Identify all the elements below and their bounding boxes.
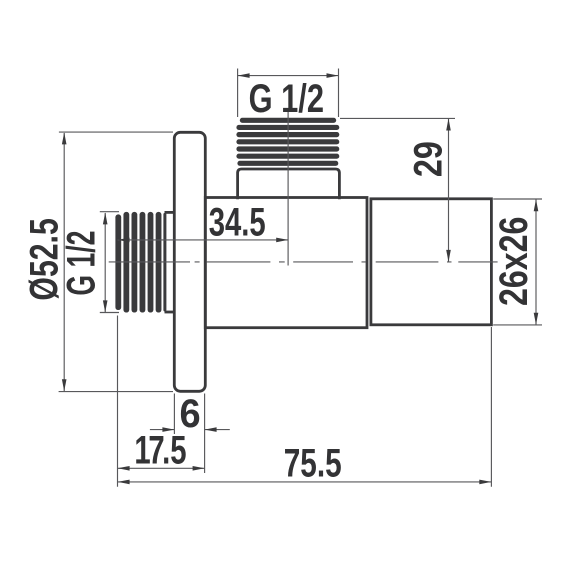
svg-text:29: 29 <box>405 141 450 177</box>
svg-text:17.5: 17.5 <box>134 428 186 473</box>
svg-text:34.5: 34.5 <box>209 200 266 245</box>
svg-text:G 1/2: G 1/2 <box>59 231 104 296</box>
svg-text:26x26: 26x26 <box>491 217 536 306</box>
svg-text:75.5: 75.5 <box>284 441 342 485</box>
svg-text:G 1/2: G 1/2 <box>249 76 324 121</box>
